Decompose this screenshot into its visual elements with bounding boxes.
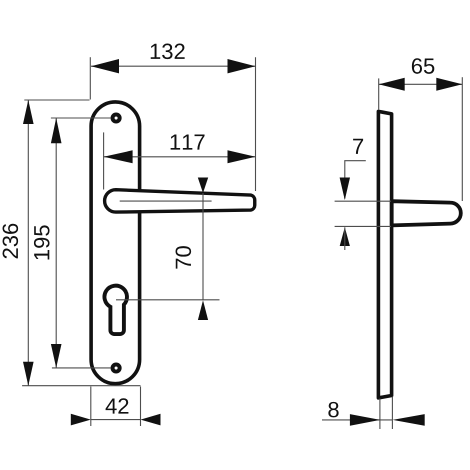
- keyhole: [104, 286, 127, 334]
- dimension label 65: [412, 58, 434, 74]
- dimension 195: arrow bottom: [51, 344, 62, 368]
- dimension 117: extension line left: [103, 132, 105, 189]
- handle crease line: [120, 200, 212, 202]
- dimension 8: arrow left: [350, 414, 380, 426]
- dimension 8: dimension line: [322, 419, 392, 421]
- dimension label 236: [3, 224, 19, 259]
- dimension 117: arrow left: [104, 150, 133, 163]
- dimension label 195: [34, 225, 50, 259]
- dimension 195: dimension line: [55, 118, 57, 368]
- dimension 65: extension line left: [378, 78, 380, 110]
- dimension 65: extension line right: [461, 77, 463, 201]
- dimension 70: arrow bottom: [198, 300, 208, 320]
- dimension 195: extension line top: [51, 117, 111, 119]
- dimension 65: dimension line: [379, 83, 463, 85]
- dimension 70: arrow top: [198, 178, 208, 194]
- dimension 132: dimension line: [91, 65, 256, 67]
- plate side: [378, 111, 391, 398]
- dimension 42: extension line left: [90, 387, 92, 427]
- dimension 42: arrow right: [141, 414, 161, 426]
- top screw hole: [113, 114, 120, 121]
- dimension label 117: [171, 134, 205, 149]
- dimension label 42: [106, 398, 129, 413]
- dimension 132: arrow right: [228, 59, 256, 73]
- dimension 8: extension line left: [379, 399, 381, 430]
- dimension 117: arrow right: [228, 150, 256, 163]
- dimension 7: extension line top: [335, 200, 391, 202]
- dimension 7: tail line below: [344, 227, 346, 250]
- dimension 8: arrow right: [393, 414, 425, 426]
- dimension 7: extension line bottom: [335, 225, 391, 227]
- dimension 70: keyhole centre extension line: [116, 299, 220, 301]
- dimension label 70: [176, 246, 192, 268]
- dimension 42: arrow left: [71, 414, 91, 426]
- dimension 117: dimension line: [104, 156, 256, 158]
- bottom screw hole: [113, 364, 120, 371]
- dimension label 132: [151, 44, 185, 60]
- dimension 236: arrow bottom: [23, 362, 34, 386]
- dimension 7: leader line: [345, 161, 366, 199]
- dimension 132: arrow left: [91, 59, 119, 73]
- dimension 236: extension line top: [24, 99, 89, 101]
- dimension label 7: [353, 139, 363, 154]
- dimension 236: arrow top: [23, 100, 34, 124]
- dimension 70: dimension line: [202, 193, 204, 300]
- dimension 7: arrow down: [340, 178, 350, 201]
- dimension 7: arrow up: [340, 227, 350, 246]
- plate front: [91, 102, 140, 384]
- handle side: [392, 201, 461, 225]
- dimension 132: extension line left: [89, 57, 91, 99]
- dimension 132/117: extension line right at handle tip: [255, 57, 257, 191]
- dimension label 8: [328, 402, 338, 418]
- dimension 236: extension line bottom: [22, 385, 140, 387]
- dimension 65: arrow right: [436, 78, 462, 91]
- dimension 65: arrow left: [379, 78, 405, 91]
- dimension 195: extension line bottom: [52, 367, 111, 369]
- dimension 236: dimension line: [27, 100, 29, 386]
- dimension 42: extension line right: [140, 387, 142, 427]
- dimension 195: arrow top: [51, 118, 62, 143]
- dimension 8: extension line right: [391, 397, 393, 430]
- handle front: [105, 190, 255, 212]
- dimension 42: dimension line: [91, 419, 141, 421]
